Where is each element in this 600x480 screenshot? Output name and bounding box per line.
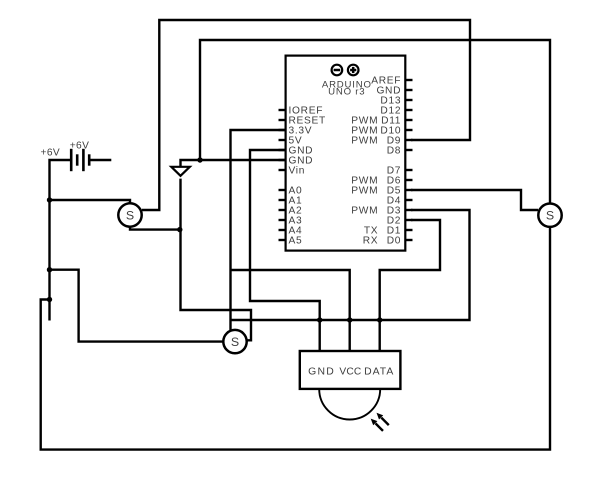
junction battery rail and S3 branch bbox=[47, 267, 52, 272]
pin D2 bbox=[387, 216, 413, 227]
sensor module body bbox=[300, 351, 401, 389]
wire 3.3V branch to sensor VCC bbox=[231, 270, 350, 320]
wire GND to sensor GND bbox=[250, 150, 320, 320]
pin D10 PWM bbox=[351, 126, 412, 137]
junction sensor GND node bbox=[317, 317, 322, 322]
wire D2 to sensor DATA bbox=[380, 220, 440, 320]
junction ground bus and S2 branch bbox=[197, 157, 202, 162]
junction battery rail and S1 feed bbox=[47, 197, 52, 202]
pin D7 bbox=[387, 166, 413, 177]
wire S1 top feed bbox=[50, 200, 131, 203]
svg-text:RX: RX bbox=[363, 236, 379, 247]
pin AREF bbox=[371, 76, 412, 87]
pin A5 bbox=[279, 236, 303, 247]
svg-text:DATA: DATA bbox=[364, 367, 394, 378]
wire ground to S2 top bbox=[200, 40, 550, 203]
svg-text:+6V: +6V bbox=[70, 140, 90, 151]
pin D4 bbox=[387, 196, 413, 207]
pin A3 bbox=[279, 216, 303, 227]
junction S1 bottom and ground rail bbox=[177, 227, 182, 232]
pin D6 PWM bbox=[351, 176, 412, 187]
wire battery negative lead / left rail bbox=[50, 160, 72, 321]
junction sensor DATA node bbox=[377, 317, 382, 322]
wire S1 bottom to ground rail bbox=[130, 226, 181, 230]
pin GND left 2 bbox=[279, 156, 314, 167]
pin D11 PWM bbox=[351, 116, 412, 127]
arduino logo bbox=[332, 65, 359, 76]
svg-text:D8: D8 bbox=[387, 146, 401, 157]
pin A2 bbox=[279, 206, 303, 217]
wire battery positive lead bbox=[89, 159, 111, 161]
pin A0 bbox=[279, 186, 303, 197]
svg-text:PWM: PWM bbox=[351, 186, 378, 197]
motor S3 bbox=[223, 330, 246, 353]
pin D9 PWM bbox=[351, 136, 412, 147]
ground symbol bbox=[171, 167, 190, 176]
svg-text:S: S bbox=[126, 209, 134, 223]
pin D13 bbox=[380, 96, 412, 107]
arduino U1 body bbox=[286, 56, 406, 251]
pin GND right bbox=[376, 86, 412, 97]
pin Vin bbox=[279, 166, 306, 177]
pin D8 bbox=[387, 146, 413, 157]
wire battery rail to S3 left bbox=[50, 270, 223, 342]
svg-text:Vin: Vin bbox=[289, 166, 306, 177]
wire sensor VCC pin bbox=[349, 320, 351, 351]
pin GND left 1 bbox=[279, 146, 314, 157]
wire sensor bus to D3 bbox=[231, 210, 470, 320]
wire GND pin bus bbox=[181, 160, 286, 166]
junction sensor VCC node bbox=[347, 317, 352, 322]
wire sensor GND pin bbox=[319, 320, 321, 351]
wire S2 bottom loop to battery rail bbox=[41, 227, 550, 449]
svg-text:+6V: +6V bbox=[40, 147, 60, 158]
pin D5 PWM bbox=[351, 186, 412, 197]
pin 5V bbox=[279, 136, 303, 147]
junction battery rail and bottom loop bbox=[47, 297, 52, 302]
pin IOREF bbox=[279, 106, 324, 117]
svg-text:PWM: PWM bbox=[351, 206, 378, 217]
motor S2 bbox=[538, 204, 561, 227]
pin D1 TX bbox=[364, 226, 413, 237]
pin D12 bbox=[380, 106, 412, 117]
pin A1 bbox=[279, 196, 303, 207]
sensor dome bbox=[319, 389, 380, 420]
wire D5 to S2 left bbox=[411, 190, 538, 210]
svg-text:S: S bbox=[231, 335, 239, 349]
sensor light arrows bbox=[371, 413, 389, 431]
svg-text:VCC: VCC bbox=[339, 367, 361, 378]
pin RESET bbox=[279, 116, 326, 127]
svg-text:UNO r3: UNO r3 bbox=[328, 87, 365, 98]
svg-text:PWM: PWM bbox=[351, 136, 378, 147]
wire ground rail down to S3 right bbox=[181, 179, 252, 341]
svg-text:S: S bbox=[546, 209, 554, 223]
svg-text:A5: A5 bbox=[289, 236, 303, 247]
motor S1 bbox=[118, 203, 141, 226]
pin D0 RX bbox=[363, 236, 413, 247]
pin D3 PWM bbox=[351, 206, 412, 217]
svg-text:D0: D0 bbox=[387, 236, 401, 247]
svg-text:GND: GND bbox=[308, 367, 335, 378]
pin A4 bbox=[279, 226, 303, 237]
wire 3.3V rail down to S3 top bbox=[231, 130, 286, 330]
battery B1 two cells bbox=[71, 149, 89, 171]
wire sensor DATA pin bbox=[379, 320, 381, 351]
pin 3.3V bbox=[279, 126, 313, 137]
wire S1 right to D9 bbox=[142, 20, 470, 210]
